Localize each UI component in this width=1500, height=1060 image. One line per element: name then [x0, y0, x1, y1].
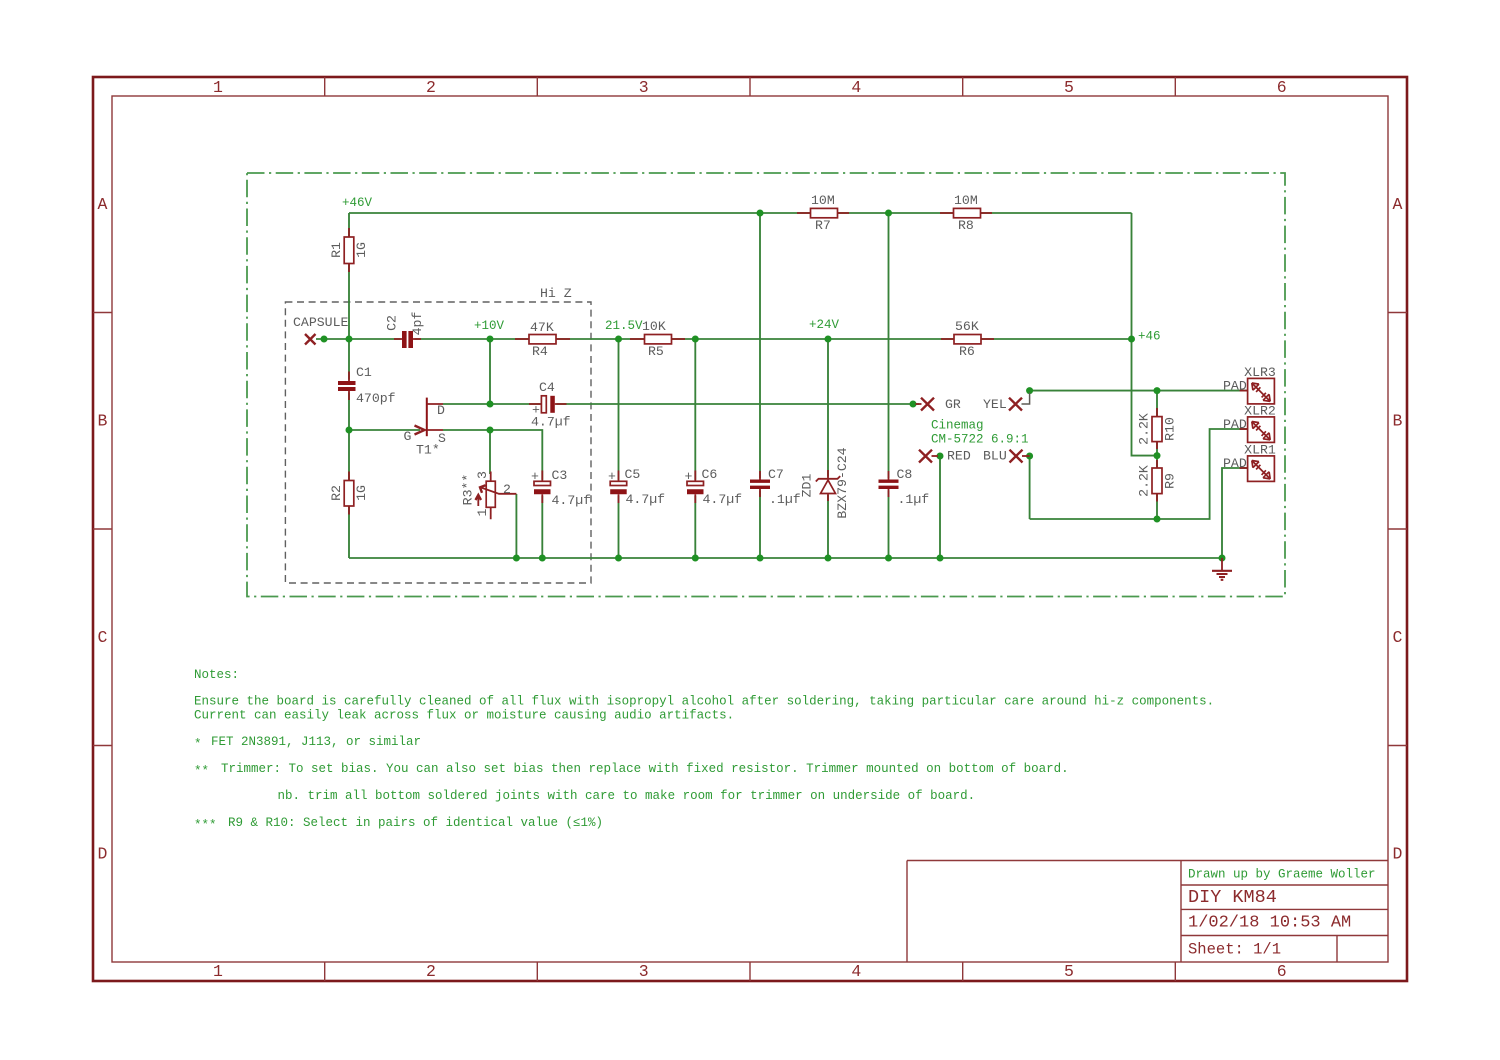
schematic boundary dash-dot box — [247, 173, 1285, 597]
svg-text:10K: 10K — [642, 319, 666, 334]
junction top rail / C7 branch — [757, 210, 764, 217]
svg-text:4: 4 — [851, 962, 861, 981]
svg-text:R10: R10 — [1163, 417, 1178, 441]
svg-text:2: 2 — [426, 78, 436, 97]
svg-text:+: + — [531, 469, 539, 484]
wire capsule/C1/R2 branch — [348, 339, 350, 558]
svg-text:R5: R5 — [648, 344, 664, 359]
GR X terminal — [921, 398, 934, 411]
svg-text:GR: GR — [945, 397, 961, 412]
svg-text:DIY KM84: DIY KM84 — [1188, 887, 1277, 908]
svg-text:C1: C1 — [356, 365, 372, 380]
row tick marks left — [93, 313, 112, 746]
junction R10 / R9 — [1154, 452, 1161, 459]
wire C5 branch — [618, 339, 620, 558]
svg-text:XLR3: XLR3 — [1244, 365, 1276, 380]
junction top rail / C8 branch — [885, 210, 892, 217]
wire XLR2 line — [1030, 429, 1248, 519]
svg-text:Notes:: Notes: — [194, 668, 239, 682]
svg-text:C: C — [98, 628, 108, 647]
svg-text:1G: 1G — [354, 485, 369, 501]
wire +46 vertical down to R10/R9 junction — [1132, 213, 1158, 456]
connector XLR3 pad lead — [1240, 390, 1248, 392]
title block — [907, 861, 1388, 963]
capsule X terminal — [305, 334, 316, 345]
junction GR wire end — [910, 401, 917, 408]
svg-text:470pf: 470pf — [356, 391, 396, 406]
svg-text:PAD: PAD — [1223, 417, 1247, 432]
resistor R4 — [515, 338, 570, 340]
svg-text:R2: R2 — [329, 485, 344, 501]
svg-text:**: ** — [194, 765, 209, 779]
svg-text:CM-5722 6.9:1: CM-5722 6.9:1 — [931, 433, 1029, 447]
junction ground rail / trimmer wiper — [513, 555, 520, 562]
svg-text:R6: R6 — [959, 344, 975, 359]
svg-text:3: 3 — [475, 471, 490, 479]
svg-text:Hi Z: Hi Z — [540, 286, 572, 301]
junction gate / C1 — [346, 427, 353, 434]
svg-text:6: 6 — [1277, 78, 1287, 97]
row tick marks right — [1388, 313, 1407, 746]
wire gate — [349, 429, 420, 431]
wire +46V top rail — [349, 212, 1132, 214]
svg-text:.1µf: .1µf — [769, 492, 801, 507]
svg-text:BLU: BLU — [983, 449, 1007, 464]
transistor T1 FET — [415, 426, 425, 435]
zener diode ZD1 — [818, 477, 838, 496]
junction R9 / XLR2 wire — [1154, 516, 1161, 523]
capacitor C8 — [877, 478, 900, 491]
wire ground rail — [349, 557, 1222, 559]
svg-text:R9 & R10: Select in pairs of i: R9 & R10: Select in pairs of identical v… — [228, 816, 603, 830]
svg-text:56K: 56K — [955, 319, 979, 334]
resistor R1 — [348, 228, 350, 272]
connector XLR1 — [1248, 456, 1275, 482]
svg-text:B: B — [1393, 412, 1403, 431]
YEL X terminal — [1009, 398, 1022, 411]
svg-text:2.2K: 2.2K — [1137, 413, 1152, 445]
capacitor C5 — [609, 480, 628, 496]
junction +46 node — [1128, 336, 1135, 343]
wire XLR3 line — [1030, 390, 1248, 392]
resistor R2 — [348, 472, 350, 515]
svg-text:47K: 47K — [530, 320, 554, 335]
wire C8 branch crossover — [888, 213, 890, 558]
svg-text:C4: C4 — [539, 380, 555, 395]
svg-text:2: 2 — [503, 482, 511, 497]
svg-text:1: 1 — [475, 508, 490, 516]
svg-text:Ensure the board is carefully: Ensure the board is carefully cleaned of… — [194, 695, 1214, 709]
svg-text:1: 1 — [213, 78, 223, 97]
svg-text:.1µf: .1µf — [898, 492, 930, 507]
trimmer R3 — [490, 472, 492, 520]
wire BLU elbow — [1029, 456, 1031, 519]
svg-text:XLR2: XLR2 — [1244, 403, 1276, 418]
wire S junction down to trimmer — [489, 430, 491, 474]
svg-text:R8: R8 — [958, 218, 974, 233]
capacitor C7 — [749, 478, 772, 491]
svg-text:+10V: +10V — [474, 319, 505, 333]
capacitor C3 — [533, 480, 552, 496]
svg-text:Current can easily leak across: Current can easily leak across flux or m… — [194, 709, 734, 723]
svg-text:BZX79-C24: BZX79-C24 — [835, 447, 850, 518]
svg-text:4.7µf: 4.7µf — [552, 493, 592, 508]
capacitor C1 — [337, 380, 356, 393]
wire source to C3 — [443, 430, 542, 480]
capacitor C2 — [401, 331, 415, 349]
junction 21.5V / C5 — [615, 336, 622, 343]
border frame inner — [112, 96, 1388, 962]
svg-text:***: *** — [194, 819, 217, 833]
wire RED vertical — [939, 456, 941, 558]
svg-text:2.2K: 2.2K — [1137, 465, 1152, 497]
wire C3 bottom — [541, 495, 543, 558]
BLU X terminal — [1010, 450, 1023, 463]
connector XLR2 pad lead — [1240, 428, 1248, 430]
capacitor C6 — [686, 480, 705, 496]
svg-text:YEL: YEL — [983, 397, 1007, 412]
wire main mid rail — [316, 338, 1132, 340]
svg-text:3: 3 — [639, 78, 649, 97]
svg-text:Trimmer: To set bias. You can: Trimmer: To set bias. You can also set b… — [221, 762, 1069, 776]
junction ground rail / RED branch — [937, 555, 944, 562]
wire R10 R9 branch — [1156, 391, 1158, 519]
svg-text:1: 1 — [213, 962, 223, 981]
svg-text:R9: R9 — [1163, 473, 1178, 489]
junction ground rail / C6 — [692, 555, 699, 562]
svg-text:Sheet: 1/1: Sheet: 1/1 — [1188, 941, 1281, 959]
resistor R10 — [1156, 408, 1158, 449]
svg-text:PAD: PAD — [1223, 456, 1247, 471]
svg-text:C: C — [1393, 628, 1403, 647]
svg-text:21.5V: 21.5V — [605, 319, 643, 333]
junction drain / C4 — [487, 401, 494, 408]
svg-text:ZD1: ZD1 — [800, 474, 815, 498]
svg-text:XLR1: XLR1 — [1244, 442, 1276, 457]
svg-text:R3**: R3** — [461, 474, 476, 506]
svg-text:3: 3 — [639, 962, 649, 981]
svg-text:D: D — [437, 403, 445, 418]
svg-text:4pf: 4pf — [410, 312, 425, 336]
svg-text:R4: R4 — [532, 344, 548, 359]
junction +24V / C6 — [692, 336, 699, 343]
svg-text:C6: C6 — [702, 467, 718, 482]
RED X terminal — [919, 450, 932, 463]
svg-text:C8: C8 — [897, 467, 913, 482]
svg-text:G: G — [404, 429, 412, 444]
svg-text:C3: C3 — [552, 468, 568, 483]
svg-text:Cinemag: Cinemag — [931, 419, 984, 433]
svg-text:B: B — [98, 412, 108, 431]
svg-text:2: 2 — [426, 962, 436, 981]
wire R1 branch vertical — [348, 213, 350, 339]
svg-text:R1: R1 — [329, 242, 344, 258]
trimmer wiper pin 2 — [481, 488, 516, 494]
junction +10V node — [487, 336, 494, 343]
wire C6 branch — [694, 339, 696, 558]
resistor R9 — [1156, 460, 1158, 502]
wire drain line to GR — [443, 403, 919, 405]
wire +10V vertical — [489, 339, 491, 404]
svg-text:10M: 10M — [954, 193, 978, 208]
svg-text:4.7µf: 4.7µf — [703, 492, 743, 507]
junction capsule / R1 / C1 — [346, 336, 353, 343]
svg-text:A: A — [1393, 195, 1403, 214]
svg-text:+: + — [608, 469, 616, 484]
junction BLU elbow — [1026, 453, 1033, 460]
svg-text:D: D — [98, 845, 108, 864]
junction ground rail / ground symbol — [1219, 555, 1226, 562]
svg-text:+: + — [532, 403, 540, 418]
junction ground rail / C8 — [885, 555, 892, 562]
connector XLR1 pad lead — [1240, 467, 1248, 469]
junction source / trimmer — [487, 427, 494, 434]
svg-text:D: D — [1393, 845, 1403, 864]
svg-text:*: * — [194, 738, 202, 752]
svg-text:4: 4 — [851, 78, 861, 97]
junction ground rail / C3 — [539, 555, 546, 562]
svg-text:CAPSULE: CAPSULE — [293, 315, 348, 330]
capacitor C4 — [540, 395, 557, 414]
column tick marks bottom — [325, 962, 1176, 981]
svg-text:Drawn up by Graeme Woller: Drawn up by Graeme Woller — [1188, 868, 1376, 882]
junction ground rail / C5 — [615, 555, 622, 562]
resistor R8 — [940, 212, 992, 214]
border frame outer — [93, 77, 1407, 981]
svg-text:T1*: T1* — [416, 443, 440, 458]
Hi-Z shield dashed box — [285, 302, 591, 583]
svg-text:nb. trim all bottom soldered j: nb. trim all bottom soldered joints with… — [278, 789, 976, 803]
wire trimmer wiper down — [515, 494, 517, 558]
svg-text:C2: C2 — [385, 315, 400, 331]
svg-text:+: + — [685, 469, 693, 484]
svg-text:RED: RED — [947, 449, 971, 464]
wire C7 branch crossover — [759, 213, 761, 558]
svg-text:FET 2N3891, J113, or similar: FET 2N3891, J113, or similar — [211, 735, 421, 749]
junction ground rail / C7 — [757, 555, 764, 562]
junction capsule stub — [321, 336, 328, 343]
svg-text:4.7µf: 4.7µf — [626, 492, 666, 507]
junction RED wire end — [937, 453, 944, 460]
junction YEL / XLR3 wire — [1026, 387, 1033, 394]
svg-text:C5: C5 — [625, 467, 641, 482]
svg-text:1/02/18 10:53 AM: 1/02/18 10:53 AM — [1188, 914, 1351, 933]
svg-text:PAD: PAD — [1223, 378, 1247, 393]
resistor R7 — [797, 212, 849, 214]
svg-text:A: A — [98, 195, 108, 214]
junction +24V / ZD1 — [825, 336, 832, 343]
column tick marks top — [325, 77, 1176, 96]
junction XLR3 wire / R10 — [1154, 387, 1161, 394]
resistor R6 — [941, 338, 994, 340]
svg-text:R7: R7 — [815, 218, 831, 233]
svg-text:+46: +46 — [1138, 330, 1161, 344]
svg-text:+46V: +46V — [342, 196, 373, 210]
wire XLR1 line — [1222, 468, 1248, 558]
resistor R5 — [630, 338, 685, 340]
connector XLR3 — [1248, 378, 1275, 404]
svg-text:6: 6 — [1277, 962, 1287, 981]
svg-text:C7: C7 — [768, 467, 784, 482]
junction ground rail / ZD1 — [825, 555, 832, 562]
wire ZD1 branch — [827, 339, 829, 558]
connector XLR2 — [1248, 417, 1275, 443]
svg-text:5: 5 — [1064, 962, 1074, 981]
svg-text:1G: 1G — [354, 242, 369, 258]
svg-text:10M: 10M — [811, 193, 835, 208]
svg-text:5: 5 — [1064, 78, 1074, 97]
ground — [1221, 558, 1223, 571]
trimmer adjust arrow — [477, 497, 479, 506]
svg-text:+24V: +24V — [809, 318, 840, 332]
